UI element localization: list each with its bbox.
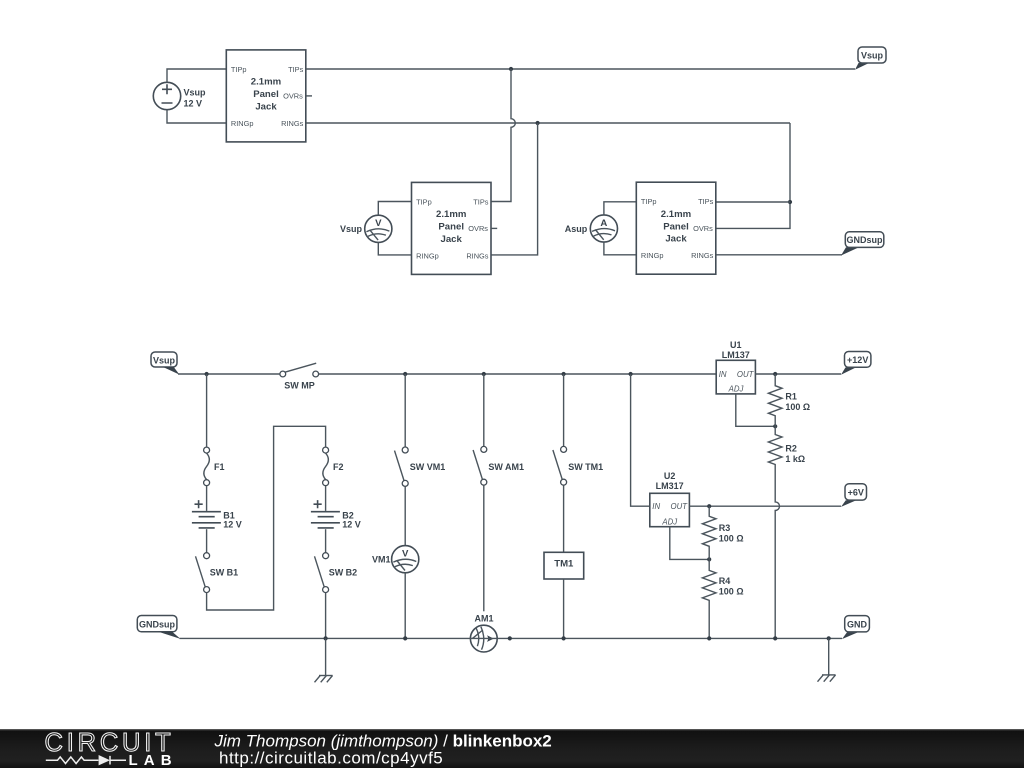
resistor R3 100 Ohm	[702, 506, 743, 559]
svg-text:V: V	[375, 218, 382, 229]
svg-text:100 Ω: 100 Ω	[785, 402, 810, 412]
wire to left ground symbol	[325, 638, 327, 675]
ground rail (GNDsup net), interrupted by AM1	[180, 637, 843, 639]
node junction (405.2,374)	[403, 372, 407, 376]
switch SW MP	[280, 363, 319, 391]
svg-text:http://circuitlab.com/cp4yvf5: http://circuitlab.com/cp4yvf5	[219, 749, 443, 768]
switch SW B1	[196, 553, 239, 593]
wire B1 to SW B1	[206, 529, 208, 552]
jack J2 (2.1mm Panel Jack middle)	[412, 182, 492, 274]
svg-text:LM137: LM137	[722, 350, 750, 360]
node junction (563.6,374)	[562, 372, 566, 376]
wire U2 OUT to +6V flag	[689, 505, 841, 507]
svg-text:V: V	[402, 549, 409, 560]
op-amp U1 LM137	[716, 340, 755, 394]
flag +6V	[841, 484, 867, 507]
node junction (325.6,638.4)	[324, 636, 328, 640]
svg-text:R2: R2	[785, 444, 797, 454]
svg-text:+12V: +12V	[847, 355, 868, 365]
flag +12V	[841, 352, 871, 375]
flag GNDsup (top right)	[841, 232, 884, 256]
svg-text:F1: F1	[214, 462, 225, 472]
wire rail down to SW VM1	[404, 374, 406, 447]
J2 OVRs stub	[491, 227, 497, 229]
svg-text:Vsup: Vsup	[340, 224, 363, 234]
svg-text:VM1: VM1	[372, 555, 391, 565]
svg-text:+6V: +6V	[848, 488, 864, 498]
node junction (709.2,506.2)	[707, 504, 711, 508]
flag Vsup (top right)	[855, 47, 886, 70]
CircuitLab logo resistor-diode strip	[46, 756, 126, 765]
svg-text:SW VM1: SW VM1	[410, 462, 446, 472]
svg-text:Vsup: Vsup	[184, 88, 207, 98]
svg-text:SW B1: SW B1	[210, 568, 239, 578]
switch SW AM1	[473, 446, 524, 485]
svg-text:A: A	[600, 218, 607, 229]
wire J3 TIPs to (790,202)	[716, 201, 790, 203]
voltage source V1 (Vsup 12 V)	[153, 82, 206, 109]
wire V1 top to J1 TIPp	[167, 69, 226, 82]
wire TM1 to ground rail	[563, 579, 565, 638]
svg-text:Jim Thompson (jimthompson) / b: Jim Thompson (jimthompson) / blinkenbox2	[214, 731, 552, 750]
svg-text:GNDsup: GNDsup	[139, 619, 176, 629]
node junction (563.6,638.4)	[562, 636, 566, 640]
node junction (775.2,426.3)	[773, 424, 777, 428]
svg-text:LAB: LAB	[129, 752, 178, 768]
svg-text:Vsup: Vsup	[861, 51, 884, 61]
CircuitLab logo diode triangle	[99, 755, 110, 765]
wire U1 OUT to +12V flag	[755, 373, 841, 375]
svg-text:R4: R4	[719, 576, 731, 586]
wire rail down to F1	[206, 374, 208, 447]
svg-text:LM317: LM317	[656, 481, 684, 491]
wire J1 TIPs to Vsup flag (net Vsup)	[306, 68, 855, 70]
svg-text:U2: U2	[664, 471, 676, 481]
fuse F2	[323, 447, 344, 486]
svg-text:12 V: 12 V	[342, 520, 361, 530]
wire rail down to SW AM1	[483, 374, 485, 446]
wire from (790,123) down to J3 OVRs	[716, 123, 790, 228]
voltmeter Vsup meter	[340, 215, 392, 242]
svg-text:IN: IN	[652, 502, 660, 511]
wire rail SW MP to U1 IN	[319, 373, 717, 375]
svg-text:SW MP: SW MP	[284, 381, 315, 391]
wire B2 to SW B2	[325, 529, 327, 552]
jack J3 (2.1mm Panel Jack right)	[636, 182, 716, 274]
svg-text:100 Ω: 100 Ω	[719, 587, 744, 597]
wire meter bottom to J2 RINGp	[378, 242, 411, 255]
box TM1	[544, 552, 584, 579]
svg-text:IN: IN	[719, 370, 727, 379]
wire meter top to J2 TIPp	[378, 202, 411, 216]
svg-text:F2: F2	[333, 462, 344, 472]
svg-text:SW TM1: SW TM1	[568, 462, 603, 472]
fuse F1	[204, 447, 225, 486]
svg-text:1 kΩ: 1 kΩ	[785, 454, 805, 464]
battery B1 12 V	[192, 500, 242, 530]
svg-text:TM1: TM1	[554, 558, 574, 569]
node junction (775.2,638.4)	[773, 636, 777, 640]
wire U2 ADJ down and right	[670, 527, 709, 560]
svg-text:Asup: Asup	[565, 224, 588, 234]
node junction at (790,202)	[788, 200, 792, 204]
voltmeter VM1	[372, 546, 419, 573]
wire V1 bottom to J1 RINGp	[167, 110, 226, 123]
op-amp U2 LM317	[650, 471, 690, 527]
wire rail down to SW TM1	[563, 374, 565, 446]
svg-text:Vsup: Vsup	[153, 355, 176, 365]
ground (earth) symbol left	[315, 676, 333, 683]
switch SW TM1	[553, 446, 603, 485]
resistor R2 1 kOhm, bottom lead hops over +6V line	[768, 426, 805, 638]
node junction (828.7,638.4)	[827, 636, 831, 640]
wire from (537.6,123) down to J2 RINGs	[492, 123, 538, 255]
wire Asup top to J3 TIPp	[604, 202, 636, 215]
wire F2 to B2	[325, 486, 327, 511]
ground (earth) symbol right	[818, 675, 836, 682]
svg-text:R1: R1	[785, 392, 797, 402]
J1 OVRs stub	[306, 95, 312, 97]
switch SW VM1	[395, 447, 446, 486]
svg-text:GND: GND	[847, 620, 868, 630]
wire SW B1 down, over to F2 top (series link)	[207, 426, 326, 610]
node junction (509.8,638.4)	[508, 636, 512, 640]
wire vertical from (511,69) to J2 TIPs with hop over y=123	[492, 69, 516, 202]
svg-text:100 Ω: 100 Ω	[719, 534, 744, 544]
node junction at (511,69)	[509, 67, 513, 71]
wire SW B2 to ground rail	[325, 593, 327, 639]
node junction (405.2,638.4)	[403, 636, 407, 640]
wire to right ground symbol	[828, 638, 830, 675]
wire Asup bottom to J3 RINGp	[604, 242, 636, 255]
svg-text:12 V: 12 V	[184, 99, 203, 109]
node junction (630.6,374)	[629, 372, 633, 376]
ammeter AM1	[470, 613, 497, 652]
svg-text:OUT: OUT	[671, 502, 689, 511]
wire J3 RINGs to GNDsup flag	[716, 254, 842, 256]
node junction (709.2,559.4)	[707, 557, 711, 561]
node junction (483.8,374)	[482, 372, 486, 376]
svg-text:ADJ: ADJ	[728, 384, 744, 393]
node junction at (537.6,123)	[536, 121, 540, 125]
wire U1 ADJ down and right	[736, 394, 775, 426]
svg-text:U1: U1	[730, 340, 742, 350]
wire F1 to B1	[206, 486, 208, 511]
svg-text:ADJ: ADJ	[661, 517, 677, 526]
ammeter Asup meter	[565, 215, 618, 242]
svg-text:OUT: OUT	[737, 370, 755, 379]
node junction (709.2,638.4)	[707, 636, 711, 640]
flag Vsup (bottom left)	[151, 352, 180, 375]
wire rail down to U2 IN	[631, 374, 650, 506]
battery B2 12 V	[311, 500, 361, 530]
wire SW VM1 to VM1	[404, 486, 406, 545]
wire SW AM1 down to AM1	[483, 485, 485, 611]
wire SW TM1 to TM1	[563, 485, 565, 552]
resistor R1 100 Ohm	[768, 374, 810, 426]
svg-text:SW AM1: SW AM1	[488, 462, 524, 472]
switch SW B2	[315, 553, 358, 593]
svg-text:GNDsup: GNDsup	[847, 235, 884, 245]
wire J1 RINGs to (790,123)	[306, 122, 790, 124]
flag GND	[842, 616, 869, 640]
svg-text:AM1: AM1	[474, 613, 493, 623]
resistor R4 100 Ohm	[702, 559, 743, 638]
jack J1 (2.1mm Panel Jack top)	[226, 50, 305, 142]
svg-text:12 V: 12 V	[223, 520, 242, 530]
svg-text:R3: R3	[719, 523, 731, 533]
node junction (206.5,374)	[205, 372, 209, 376]
wire main rail Vsup flag to SW MP	[178, 373, 280, 375]
wire VM1 to ground rail	[404, 573, 406, 639]
node junction (775.2,374)	[773, 372, 777, 376]
flag GNDsup (bottom left)	[137, 616, 180, 639]
svg-text:SW B2: SW B2	[329, 568, 358, 578]
